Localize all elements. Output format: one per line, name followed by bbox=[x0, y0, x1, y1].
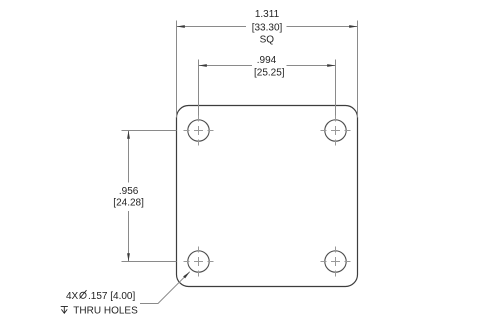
svg-text:[24.28]: [24.28] bbox=[113, 198, 144, 209]
arrowhead .994 right bbox=[327, 64, 335, 67]
extension line hole BL (for .956 dim) bbox=[122, 261, 177, 263]
centerline hole bottom-left bbox=[184, 247, 214, 277]
hole top-left bbox=[188, 120, 209, 141]
svg-text:SQ: SQ bbox=[260, 35, 275, 46]
extension line hole TL (for .956 dim) bbox=[122, 130, 177, 132]
hole top-right bbox=[325, 120, 346, 141]
svg-text:[33.30]: [33.30] bbox=[252, 22, 283, 33]
extension line hole TR (for .994 dim) bbox=[335, 60, 337, 116]
dimension line 1.311 left segment bbox=[177, 26, 247, 28]
hole bottom-right bbox=[325, 251, 346, 272]
svg-text:4X: 4X bbox=[66, 291, 79, 302]
svg-text:.994: .994 bbox=[257, 55, 277, 66]
leader line to hole BL bbox=[140, 272, 190, 304]
extension line plate right edge (for 1.311 dim) bbox=[357, 21, 359, 118]
dimension line 1.311 right segment bbox=[287, 26, 358, 28]
leader arrowhead bbox=[183, 272, 190, 279]
arrowhead 1.311 right bbox=[349, 25, 357, 28]
extension line hole TL (for .994 dim) bbox=[198, 60, 200, 116]
svg-text:1.311: 1.311 bbox=[255, 9, 280, 20]
dimension line .994 right segment bbox=[287, 65, 336, 67]
centerline hole top-left bbox=[184, 116, 214, 146]
depth symbol bbox=[61, 307, 68, 314]
svg-text:.956: .956 bbox=[119, 186, 139, 197]
diameter symbol bbox=[80, 290, 87, 298]
centerline hole top-right bbox=[321, 116, 351, 146]
arrowhead .956 bottom bbox=[127, 253, 130, 261]
svg-text:THRU HOLES: THRU HOLES bbox=[73, 306, 138, 317]
dimension line .956 top segment bbox=[128, 131, 130, 183]
extension line plate left edge (for 1.311 dim) bbox=[176, 21, 178, 118]
svg-text:[25.25]: [25.25] bbox=[254, 68, 285, 79]
arrowhead .994 left bbox=[199, 64, 207, 67]
arrowhead 1.311 left bbox=[177, 25, 185, 28]
svg-text:.157 [4.00]: .157 [4.00] bbox=[88, 291, 135, 302]
plate outline bbox=[177, 106, 358, 287]
hole bottom-left bbox=[188, 251, 209, 272]
centerline hole bottom-right bbox=[321, 247, 351, 277]
arrowhead .956 top bbox=[127, 131, 130, 139]
dimension line .994 left segment bbox=[199, 65, 253, 67]
dimension line .956 bottom segment bbox=[128, 211, 130, 262]
